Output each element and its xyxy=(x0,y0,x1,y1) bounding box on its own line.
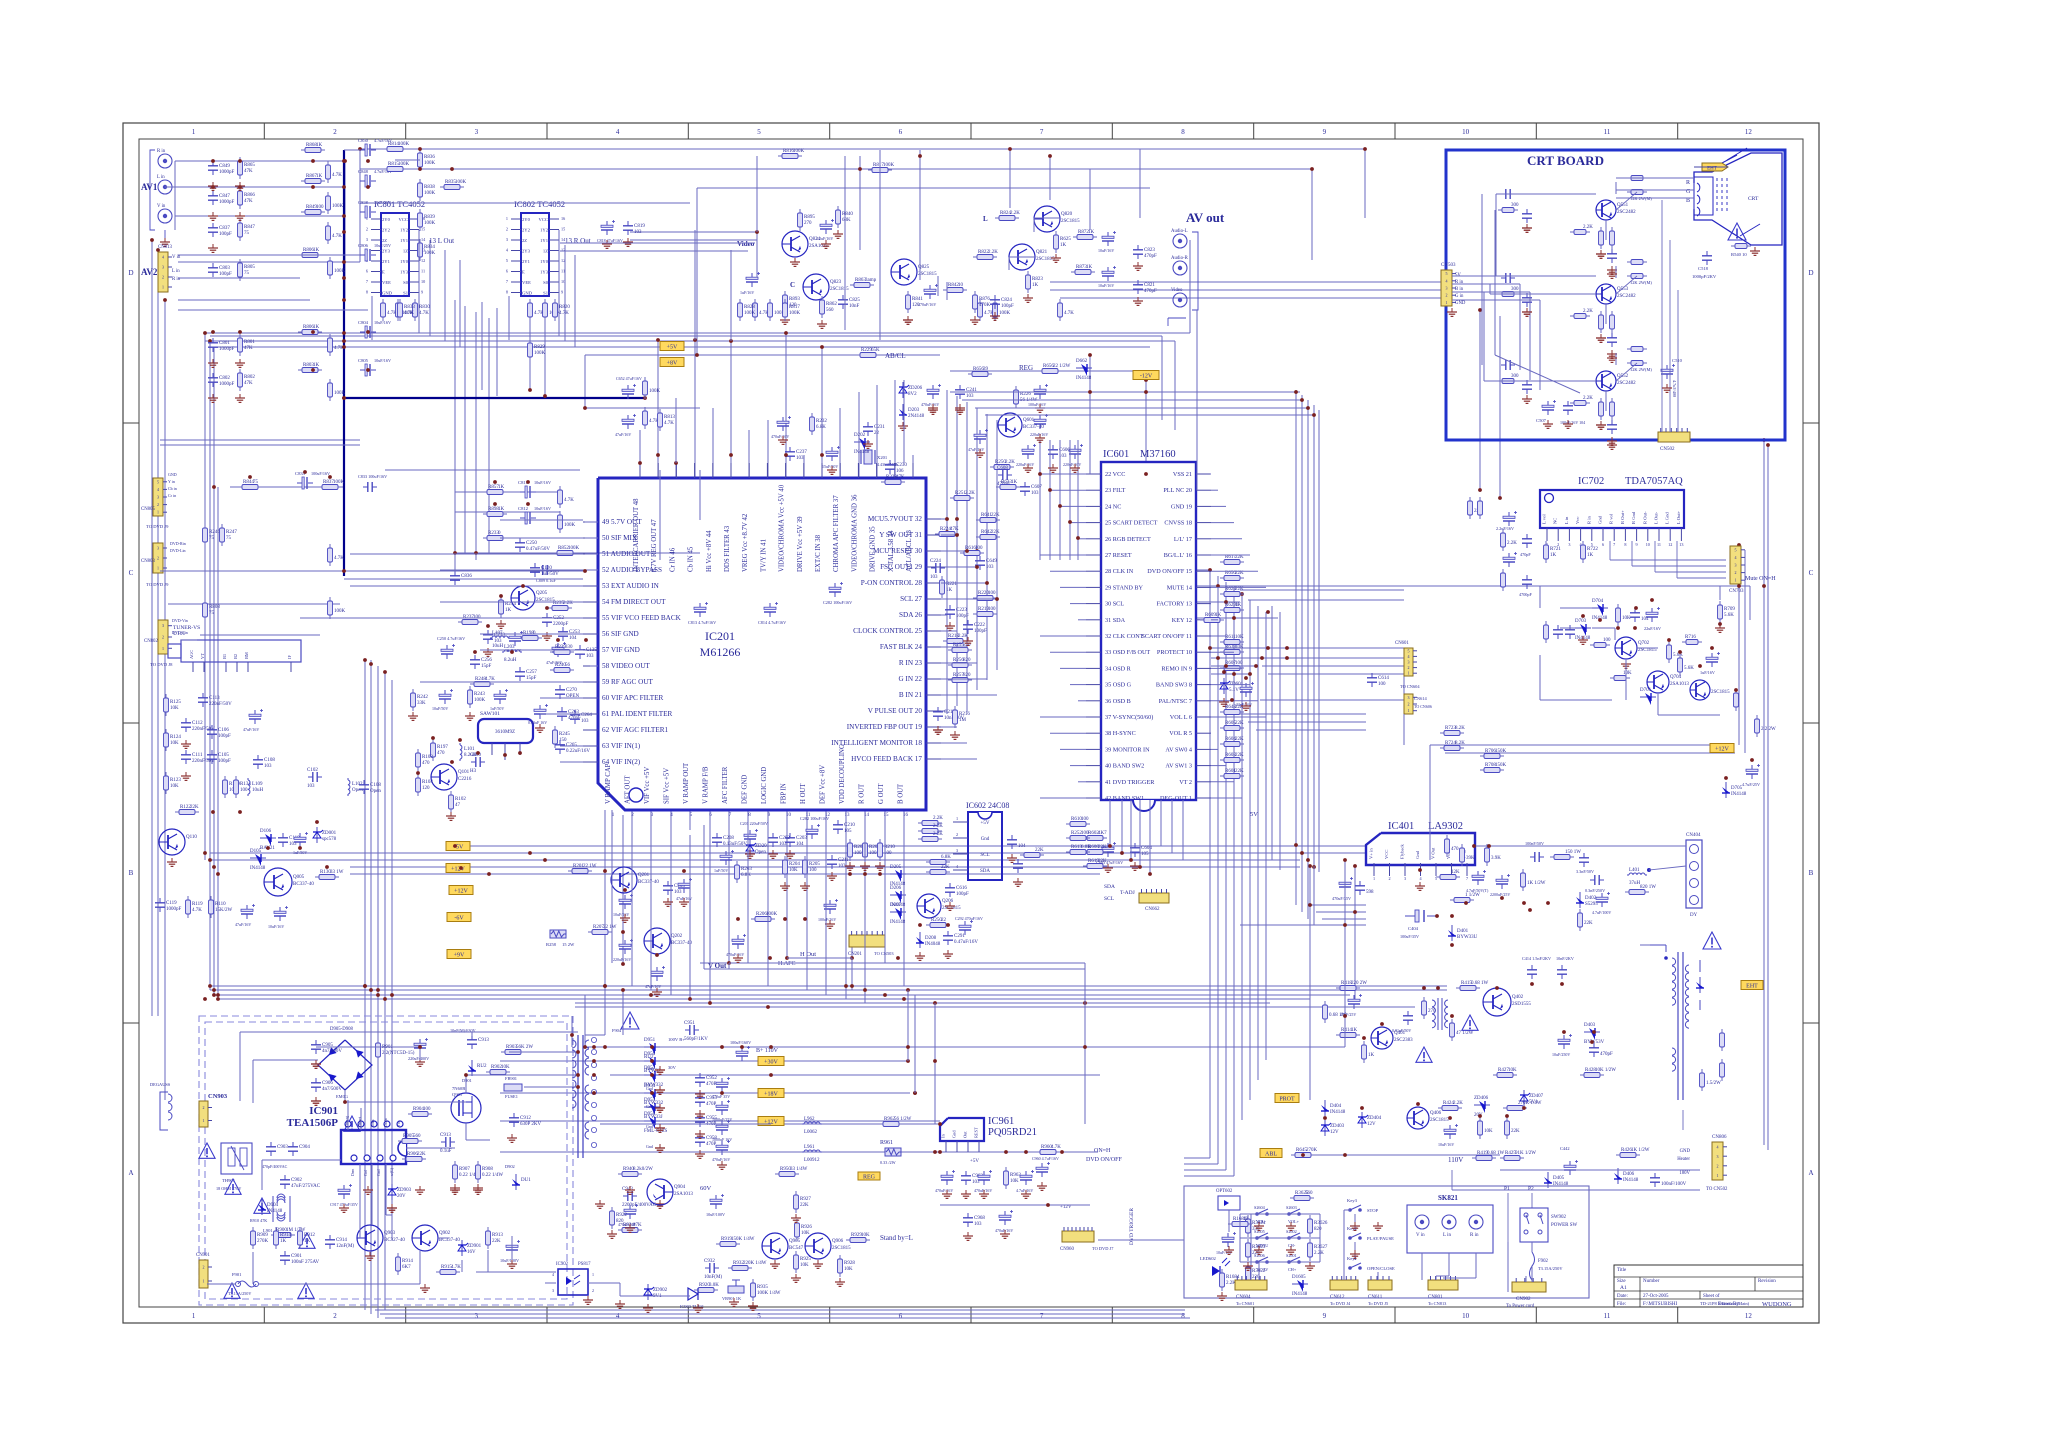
diode D904 xyxy=(258,1199,283,1215)
capacitor C962 xyxy=(961,1171,983,1185)
resistor xyxy=(1734,689,1739,711)
wire xyxy=(200,634,320,636)
svg-text:30V: 30V xyxy=(668,1065,677,1070)
svg-text:E: E xyxy=(382,270,385,275)
svg-text:100K: 100K xyxy=(649,389,661,394)
capacitor xyxy=(1530,852,1544,862)
wire xyxy=(164,300,166,1100)
wire xyxy=(851,947,853,958)
wire xyxy=(488,318,490,553)
wire xyxy=(1495,194,1497,276)
capacitor xyxy=(720,850,734,865)
wire xyxy=(1211,781,1234,783)
svg-text:B: B xyxy=(1686,198,1690,204)
wire xyxy=(1658,714,1720,716)
wire xyxy=(1239,1214,1241,1262)
wire xyxy=(1240,713,1360,715)
svg-text:w(G): w(G) xyxy=(390,1167,394,1176)
ground xyxy=(963,637,973,645)
wire xyxy=(1436,1275,1449,1277)
ground xyxy=(955,404,965,412)
svg-text:Q406: Q406 xyxy=(1430,1111,1442,1116)
wire xyxy=(1248,721,1366,723)
wire xyxy=(748,455,750,478)
svg-text:TV/Y IN 41: TV/Y IN 41 xyxy=(760,539,767,572)
svg-text:1: 1 xyxy=(1408,708,1410,713)
svg-text:G IN 22: G IN 22 xyxy=(898,675,922,683)
power label -6V xyxy=(447,913,471,922)
thick bus vertical xyxy=(343,150,345,576)
svg-text:470K: 470K xyxy=(979,303,991,308)
svg-text:To DVD J5: To DVD J5 xyxy=(1368,1301,1389,1306)
wire xyxy=(1354,1214,1356,1230)
inductor L961 xyxy=(802,1145,822,1163)
svg-text:CN803: CN803 xyxy=(141,559,155,564)
svg-text:C913: C913 xyxy=(440,1133,451,1138)
svg-text:9: 9 xyxy=(1323,128,1327,136)
wire xyxy=(1319,1214,1321,1262)
svg-text:37uH: 37uH xyxy=(1629,881,1641,886)
svg-text:Size: Size xyxy=(1617,1279,1626,1284)
ground xyxy=(595,1200,605,1208)
wire xyxy=(585,407,700,409)
resistor R823 xyxy=(1026,271,1044,293)
svg-text:C813 4.7uF/16V: C813 4.7uF/16V xyxy=(688,620,716,625)
wire vertical bus B xyxy=(1652,197,1694,199)
wire xyxy=(639,455,641,478)
svg-text:F902: F902 xyxy=(1538,1259,1548,1264)
svg-text:12K 2W(M): 12K 2W(M) xyxy=(1630,280,1652,285)
svg-text:C818 47uF/16V: C818 47uF/16V xyxy=(597,238,623,243)
resistor R607 xyxy=(1220,661,1244,671)
wire xyxy=(1490,293,1596,295)
svg-text:C614: C614 xyxy=(1378,676,1389,681)
svg-text:59 RF AGC OUT: 59 RF AGC OUT xyxy=(602,678,654,686)
svg-text:R961: R961 xyxy=(880,1140,893,1146)
svg-text:220K 1/4W: 220K 1/4W xyxy=(743,1261,767,1266)
svg-text:150K: 150K xyxy=(1495,749,1507,754)
resistor R808 xyxy=(203,599,221,621)
svg-text:IN4148: IN4148 xyxy=(1623,1178,1639,1183)
capacitor C253 xyxy=(558,627,580,641)
svg-text:R721: R721 xyxy=(1550,547,1561,552)
svg-text:2SC2482: 2SC2482 xyxy=(1617,381,1636,386)
wire xyxy=(584,995,586,1047)
svg-text:4n7/500V: 4n7/500V xyxy=(322,1049,342,1054)
svg-text:820: 820 xyxy=(963,673,971,678)
resistor xyxy=(1445,835,1460,857)
wire xyxy=(631,835,633,986)
resistor xyxy=(1058,299,1075,321)
capacitor xyxy=(1542,400,1556,415)
svg-text:100: 100 xyxy=(1235,661,1243,666)
svg-text:CHROMA APC FILTER 37: CHROMA APC FILTER 37 xyxy=(833,495,840,572)
diode D952 xyxy=(644,1066,664,1088)
svg-text:100pF: 100pF xyxy=(218,734,231,739)
svg-text:Q005: Q005 xyxy=(293,875,305,880)
wire xyxy=(1615,182,1617,194)
frame column ticks and numbers xyxy=(192,123,1752,1323)
svg-text:ABL: ABL xyxy=(1265,1152,1277,1158)
svg-text:300: 300 xyxy=(1511,374,1519,379)
svg-text:DVD-Lin: DVD-Lin xyxy=(170,548,186,553)
switch S2602 xyxy=(1286,1229,1301,1248)
wire xyxy=(1719,586,1721,600)
op-amp IC702 TDA7057AQ audio amp xyxy=(1540,476,1684,547)
svg-text:4: 4 xyxy=(157,487,159,492)
svg-text:C291: C291 xyxy=(954,934,965,939)
svg-text:1Z: 1Z xyxy=(403,249,408,254)
resistor R198 xyxy=(518,631,542,641)
svg-text:IC601: IC601 xyxy=(1103,449,1129,460)
resistor xyxy=(1627,190,1647,195)
svg-text:R204: R204 xyxy=(789,862,800,867)
wire xyxy=(1616,276,1637,294)
wire xyxy=(1211,765,1226,767)
svg-text:4.7K: 4.7K xyxy=(332,173,342,178)
svg-text:47K: 47K xyxy=(950,527,959,532)
wire xyxy=(879,150,881,340)
resistor R925 xyxy=(794,1251,812,1273)
svg-text:+5V: +5V xyxy=(667,345,678,351)
svg-text:1uF/50V: 1uF/50V xyxy=(714,868,728,873)
svg-text:150K: 150K xyxy=(1495,763,1507,768)
wire xyxy=(1256,657,1404,659)
wire xyxy=(1196,617,1278,619)
capacitor C111 xyxy=(181,750,215,764)
wire xyxy=(1479,310,1481,492)
svg-text:2.2K: 2.2K xyxy=(933,824,943,829)
wire xyxy=(1313,405,1315,866)
transistor Q903 xyxy=(357,1225,405,1251)
resistor R872 xyxy=(1073,230,1097,240)
svg-text:15pF: 15pF xyxy=(481,664,492,669)
wire xyxy=(455,491,560,493)
wire xyxy=(1322,918,1366,920)
ground xyxy=(1447,308,1457,316)
wire xyxy=(160,444,360,446)
svg-text:Gnd: Gnd xyxy=(981,837,990,842)
op-amp U2 IC601 M37160 MCU xyxy=(1086,449,1211,811)
capacitor C838 xyxy=(358,200,391,218)
svg-text:100pF: 100pF xyxy=(956,892,969,897)
resistor R201 xyxy=(568,864,597,874)
svg-text:R Gnd: R Gnd xyxy=(1631,511,1636,524)
svg-text:S0: S0 xyxy=(543,280,549,285)
svg-text:56 1/2W: 56 1/2W xyxy=(894,1117,912,1122)
wire xyxy=(1258,1262,1260,1280)
wire xyxy=(1531,1242,1533,1252)
svg-text:P-ON CONTROL 28: P-ON CONTROL 28 xyxy=(861,579,923,587)
capacitor C135 xyxy=(575,645,597,659)
svg-text:L401: L401 xyxy=(1629,868,1640,873)
capacitor C113 xyxy=(198,693,232,707)
svg-text:4.7K: 4.7K xyxy=(564,498,574,503)
svg-text:5.1V: 5.1V xyxy=(1229,688,1239,693)
wire xyxy=(210,985,1447,987)
wire xyxy=(1682,1110,1684,1130)
svg-text:47K: 47K xyxy=(633,1223,642,1228)
svg-text:R226: R226 xyxy=(1020,392,1031,397)
wire xyxy=(350,866,1300,868)
wire xyxy=(207,1283,236,1285)
svg-text:Video: Video xyxy=(1171,288,1183,293)
svg-text:T-ADJ: T-ADJ xyxy=(1120,890,1136,896)
wire xyxy=(350,585,583,587)
svg-text:220uF/16V: 220uF/16V xyxy=(1063,462,1081,467)
resistor xyxy=(1578,909,1594,931)
capacitor C913 xyxy=(467,1035,489,1049)
svg-text:IN4148: IN4148 xyxy=(890,920,906,925)
resistor xyxy=(918,816,943,826)
capacitor xyxy=(1746,764,1760,779)
wire xyxy=(406,1147,455,1149)
resistor R625 xyxy=(1054,231,1072,253)
ground xyxy=(507,1260,517,1268)
svg-text:CN802: CN802 xyxy=(144,639,158,644)
resistor R650 xyxy=(1220,571,1244,581)
wire xyxy=(1240,713,1366,715)
ground xyxy=(1578,636,1588,644)
capacitor C850 xyxy=(358,138,392,156)
svg-text:L/L' 17: L/L' 17 xyxy=(1174,536,1192,543)
resistor R868 xyxy=(301,143,325,153)
svg-text:R914: R914 xyxy=(402,1259,413,1264)
wire xyxy=(748,430,750,463)
capacitor C616 xyxy=(945,883,969,897)
svg-text:75: 75 xyxy=(244,231,250,236)
resistor R250 xyxy=(926,918,950,928)
capacitor C806 xyxy=(358,243,391,261)
wire xyxy=(670,835,672,995)
resistor R237 xyxy=(458,615,482,625)
wire xyxy=(480,633,583,635)
wire xyxy=(230,486,345,488)
capacitor xyxy=(716,1120,730,1135)
svg-text:C208: C208 xyxy=(723,836,734,841)
svg-text:D403: D403 xyxy=(1584,1023,1596,1028)
resistor R224 xyxy=(935,527,959,537)
svg-text:2.2K: 2.2K xyxy=(988,250,998,255)
capacitor C102 xyxy=(307,768,322,789)
svg-text:R895: R895 xyxy=(804,215,815,220)
svg-text:2.2uF/16V: 2.2uF/16V xyxy=(816,236,833,241)
svg-text:13: 13 xyxy=(1679,542,1683,547)
wire density IC801 area verticals xyxy=(372,150,880,560)
svg-text:5.6K: 5.6K xyxy=(1724,613,1734,618)
wire xyxy=(210,852,1366,854)
wire xyxy=(756,156,758,232)
capacitor C108 xyxy=(359,780,381,794)
ground xyxy=(167,858,177,866)
resistor R240 xyxy=(550,663,574,673)
svg-text:DRIVE Vcc +5V 39: DRIVE Vcc +5V 39 xyxy=(797,516,804,572)
svg-text:47uF/16V: 47uF/16V xyxy=(235,922,251,927)
resistor xyxy=(1501,529,1518,551)
wire xyxy=(464,306,466,553)
svg-text:100pF: 100pF xyxy=(218,759,231,764)
svg-text:100V B+: 100V B+ xyxy=(668,1037,685,1042)
svg-text:C510: C510 xyxy=(1672,358,1683,363)
svg-text:FSC OUT1 29: FSC OUT1 29 xyxy=(880,563,922,571)
resistor R218 xyxy=(943,634,968,644)
wire xyxy=(610,1074,1100,1076)
transistor Q704 xyxy=(1647,671,1689,693)
ground xyxy=(655,1200,665,1208)
svg-text:D206: D206 xyxy=(890,886,902,891)
border frame outer xyxy=(123,123,1819,1323)
svg-text:5.6K: 5.6K xyxy=(1684,666,1694,671)
capacitor xyxy=(294,832,308,847)
svg-text:C849: C849 xyxy=(219,164,230,169)
svg-text:2Y1: 2Y1 xyxy=(382,259,391,264)
svg-text:ZD404: ZD404 xyxy=(1367,1116,1382,1121)
resistor R834 xyxy=(418,239,436,261)
svg-text:13 R Out: 13 R Out xyxy=(565,237,591,245)
svg-text:560: 560 xyxy=(1305,1191,1313,1196)
svg-text:22K: 22K xyxy=(417,1152,426,1157)
svg-text:47: 47 xyxy=(455,803,461,808)
power label PROT xyxy=(1275,1094,1299,1103)
capacitor C223 xyxy=(945,605,969,619)
svg-text:C903: C903 xyxy=(277,1145,288,1150)
resistor xyxy=(1505,1117,1521,1139)
capacitor C903 xyxy=(266,1142,288,1156)
diode DU1 xyxy=(512,1174,531,1190)
resistor R929 xyxy=(846,1233,870,1243)
wire xyxy=(344,161,346,300)
svg-text:Hi Vcc +8V 44: Hi Vcc +8V 44 xyxy=(706,530,713,572)
resistor xyxy=(326,192,344,214)
capacitor xyxy=(826,446,840,461)
svg-text:IF: IF xyxy=(287,655,292,659)
svg-text:22K: 22K xyxy=(1098,845,1107,850)
wire xyxy=(1078,781,1086,783)
svg-text:BC337-40: BC337-40 xyxy=(293,882,314,887)
svg-text:1: 1 xyxy=(157,566,159,571)
resistor R876 xyxy=(973,291,991,313)
capacitor C202 xyxy=(768,833,790,847)
capacitor xyxy=(1102,231,1116,246)
ground xyxy=(863,440,873,448)
resistor R919 xyxy=(716,1237,755,1247)
wire xyxy=(1616,189,1652,191)
switch Key2 xyxy=(1347,1226,1394,1241)
svg-text:To DVD J4: To DVD J4 xyxy=(1330,1301,1351,1306)
svg-text:C237: C237 xyxy=(796,450,807,455)
svg-text:35 OSD G: 35 OSD G xyxy=(1105,682,1132,689)
wire xyxy=(941,614,947,616)
wire xyxy=(1452,275,1496,277)
svg-text:+12V: +12V xyxy=(454,889,468,895)
svg-text:C203: C203 xyxy=(796,836,807,841)
svg-text:30 SCL: 30 SCL xyxy=(1105,601,1124,608)
wire xyxy=(650,810,652,835)
svg-text:FB901: FB901 xyxy=(505,1076,517,1081)
svg-text:IN4148: IN4148 xyxy=(267,1209,283,1214)
ground xyxy=(979,1190,989,1198)
capacitor xyxy=(1355,881,1374,895)
capacitor xyxy=(509,631,523,646)
svg-text:75: 75 xyxy=(244,271,250,276)
svg-text:GND: GND xyxy=(168,472,177,477)
wire xyxy=(1452,291,1530,293)
wire xyxy=(1443,1277,1476,1279)
capacitor xyxy=(552,642,566,657)
svg-text:1: 1 xyxy=(162,646,164,651)
svg-text:2: 2 xyxy=(1408,665,1410,670)
wire xyxy=(380,1313,1185,1315)
svg-text:B2: B2 xyxy=(233,654,238,659)
svg-text:4K7: 4K7 xyxy=(1098,831,1107,836)
zener ZD201 xyxy=(746,840,770,856)
svg-text:4.7K: 4.7K xyxy=(334,556,344,561)
wire xyxy=(1060,667,1086,669)
resistor R901 xyxy=(376,1039,415,1061)
capacitor C952 xyxy=(695,1073,717,1087)
svg-text:Q901: Q901 xyxy=(452,1092,463,1097)
svg-text:330: 330 xyxy=(565,645,573,650)
wire xyxy=(350,873,1100,875)
resistor R813 xyxy=(658,409,676,431)
wire xyxy=(1196,310,1198,490)
svg-text:14: 14 xyxy=(864,813,870,818)
svg-text:11: 11 xyxy=(561,269,565,274)
svg-text:R862: R862 xyxy=(826,302,837,307)
wire xyxy=(1050,289,1446,291)
svg-text:100uF/35V: 100uF/35V xyxy=(1400,934,1419,939)
svg-text:8.2k0/2W: 8.2k0/2W xyxy=(633,1167,653,1172)
svg-text:2Y0: 2Y0 xyxy=(522,217,531,222)
svg-text:3.0K: 3.0K xyxy=(709,1283,719,1288)
resistor R1686 xyxy=(1228,1217,1252,1227)
capacitor C847 xyxy=(208,191,235,205)
wire xyxy=(1307,862,1309,919)
wire xyxy=(1069,440,1071,560)
wire xyxy=(1084,963,1086,1003)
svg-text:29 STAND BY: 29 STAND BY xyxy=(1105,584,1144,591)
svg-text:100nF/100V: 100nF/100V xyxy=(1661,1182,1687,1187)
capacitor xyxy=(1630,608,1649,622)
svg-text:12K 2W(M): 12K 2W(M) xyxy=(1630,367,1652,372)
resistor xyxy=(558,511,576,533)
svg-text:33K: 33K xyxy=(417,701,426,706)
capacitor xyxy=(441,644,455,659)
svg-text:2Y1: 2Y1 xyxy=(522,259,531,264)
ground xyxy=(1596,421,1606,429)
zener ZD403 xyxy=(1321,1120,1345,1136)
wire xyxy=(825,810,827,835)
svg-text:1Y2: 1Y2 xyxy=(540,228,549,233)
resistor R824 xyxy=(995,211,1020,221)
svg-text:R909: R909 xyxy=(257,1233,268,1238)
svg-text:FUSE1: FUSE1 xyxy=(505,1094,518,1099)
wire xyxy=(845,835,847,999)
wire xyxy=(419,1251,421,1284)
ground xyxy=(791,1274,801,1282)
resistor xyxy=(1720,1059,1725,1081)
resistor xyxy=(381,299,398,321)
svg-text:D956: D956 xyxy=(644,1052,656,1057)
resistor xyxy=(328,379,346,401)
svg-text:Q902: Q902 xyxy=(439,1231,451,1236)
svg-text:C904: C904 xyxy=(299,1145,310,1150)
resistor R840 xyxy=(836,206,854,228)
wire xyxy=(728,810,730,963)
svg-text:100: 100 xyxy=(1603,638,1611,643)
svg-text:Audio-R: Audio-R xyxy=(1171,256,1189,261)
svg-text:D106: D106 xyxy=(260,829,272,834)
